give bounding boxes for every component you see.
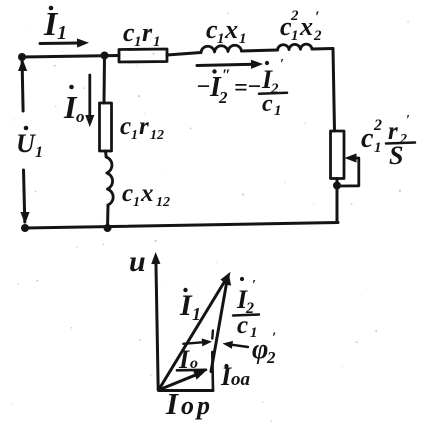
svg-text:I: I — [165, 386, 179, 421]
svg-text:1: 1 — [274, 103, 282, 119]
svg-text:I: I — [178, 345, 190, 374]
svg-text:2: 2 — [266, 348, 276, 367]
svg-text:′: ′ — [280, 57, 284, 72]
svg-text:r: r — [142, 18, 153, 47]
svg-text:1: 1 — [291, 28, 299, 44]
svg-text:2: 2 — [313, 28, 322, 44]
svg-text:c: c — [361, 123, 374, 154]
svg-text:1: 1 — [217, 31, 225, 47]
svg-text:12: 12 — [156, 195, 170, 210]
svg-text:S: S — [389, 141, 403, 170]
svg-text:2: 2 — [373, 117, 382, 134]
svg-text:c: c — [120, 113, 131, 140]
svg-text:=: = — [234, 75, 248, 101]
svg-text:c: c — [262, 91, 273, 117]
svg-text:′: ′ — [252, 278, 256, 293]
svg-text:2: 2 — [218, 88, 228, 107]
svg-text:−: − — [196, 74, 211, 100]
svg-text:1: 1 — [239, 31, 247, 47]
svg-text:oa: oa — [231, 369, 251, 390]
svg-text:′: ′ — [406, 113, 410, 128]
svg-text:x: x — [299, 12, 313, 41]
svg-text:1: 1 — [131, 128, 138, 143]
svg-text:φ: φ — [252, 334, 268, 365]
svg-text:1: 1 — [134, 34, 142, 50]
svg-text:12: 12 — [150, 128, 164, 143]
svg-text:1: 1 — [35, 144, 43, 161]
svg-text:o: o — [76, 107, 85, 126]
svg-text:p: p — [195, 391, 210, 420]
svg-text:c: c — [237, 312, 248, 339]
svg-text:−: − — [247, 74, 262, 100]
svg-text:x: x — [140, 180, 154, 207]
svg-text:r: r — [139, 113, 149, 140]
svg-text:″: ″ — [222, 67, 231, 84]
svg-text:U: U — [16, 129, 36, 158]
svg-text:1: 1 — [192, 304, 201, 324]
svg-text:o: o — [181, 391, 194, 420]
svg-text:′: ′ — [315, 9, 320, 26]
svg-text:1: 1 — [374, 140, 382, 156]
svg-text:1: 1 — [57, 22, 67, 44]
svg-text:1: 1 — [153, 34, 161, 50]
svg-text:c: c — [122, 180, 133, 207]
svg-text:2: 2 — [290, 8, 299, 24]
svg-text:u: u — [129, 245, 146, 278]
svg-text:o: o — [190, 355, 198, 372]
svg-text:1: 1 — [133, 195, 140, 210]
svg-text:x: x — [224, 15, 238, 44]
svg-text:′: ′ — [272, 330, 276, 346]
svg-text:I: I — [179, 289, 193, 322]
